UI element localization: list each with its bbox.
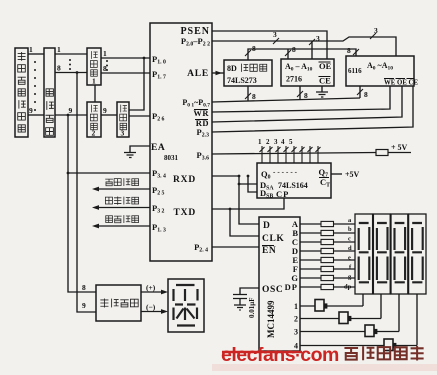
svg-text:74LS273: 74LS273 (227, 76, 257, 85)
junction node on P1.0 line (143, 57, 146, 60)
EPROM U3 2716 box (281, 59, 334, 86)
wire vertical bus to discriminator input 8 (68, 115, 96, 292)
overline WR (194, 109, 208, 111)
shaping circuit box (44, 48, 55, 137)
RAM U4 6116 box (346, 56, 414, 86)
7-segment display DS3 box (391, 214, 408, 294)
wire encoder to shaper bit9 (28, 114, 44, 116)
svg-text:elecfans·com: elecfans·com (221, 344, 339, 366)
direction-discriminator box (96, 285, 141, 321)
svg-text:dp: dp (344, 284, 352, 291)
segment resistors R2-R9 (321, 221, 334, 289)
wire P2.4 to MC14499 EN (212, 246, 259, 248)
wire P2.6 pull-up line over 74LS164 (212, 153, 376, 155)
ellipsis dots encoder-shaper (34, 59, 108, 111)
latch 2 box (87, 102, 101, 137)
wire data stub into 2716 (299, 86, 301, 100)
svg-text:1: 1 (294, 302, 298, 311)
segments DS1 (359, 223, 370, 282)
8D latch chinese chars (242, 64, 267, 72)
wire segment b (300, 232, 355, 234)
transistor Q4 digit4 driver (384, 339, 393, 351)
svg-text:1: 1 (92, 77, 96, 86)
svg-text:1: 1 (258, 138, 262, 146)
svg-text:8: 8 (252, 44, 256, 53)
svg-text:2: 2 (294, 315, 298, 324)
74LS164 output stubs with slashes (260, 146, 321, 163)
period control text (105, 197, 138, 205)
segments DS4 (412, 223, 423, 282)
wire ALE to 74LS273 (212, 72, 224, 74)
MCU U1 8031 box (150, 23, 212, 261)
svg-text:------: ------ (273, 168, 299, 176)
arrowhead period control (92, 205, 99, 210)
svg-text:2: 2 (266, 138, 270, 146)
svg-text:e: e (348, 255, 351, 262)
discriminator text (100, 299, 138, 308)
capacitor C1 0.01uF (233, 295, 247, 311)
svg-text:DP: DP (285, 282, 298, 292)
svg-text:3: 3 (374, 26, 378, 35)
svg-text:8D: 8D (227, 64, 237, 73)
wire MC14499 OSC to capacitor (240, 288, 259, 294)
svg-text:8031: 8031 (164, 154, 179, 162)
wire P0 data bus (212, 98, 360, 102)
junction node DSB tap (247, 175, 250, 178)
encoder box (nine-bit photoelectric encoder) (15, 48, 28, 137)
svg-text:CLK: CLK (262, 234, 284, 244)
7-segment display DS4 box (409, 214, 426, 294)
svg-text:6116: 6116 (348, 67, 362, 75)
svg-text:1: 1 (29, 45, 33, 54)
ellipsis dots shaper-latch1 (69, 59, 71, 61)
wire 2716 CE to ground (321, 86, 323, 92)
ellipsis dots latch1-MCU (106, 60, 108, 62)
wire segment g (300, 277, 355, 279)
svg-text:RXD: RXD (173, 175, 196, 185)
overline WE 6116 (384, 78, 415, 80)
wire clock branch to MC14499 CLK (230, 209, 259, 236)
latch 3 box (117, 102, 129, 137)
wire TXD clock line (212, 198, 284, 209)
speed control text (106, 215, 139, 223)
junction node DSA tap (238, 183, 241, 186)
wire segment c (300, 241, 355, 243)
svg-text:1: 1 (57, 45, 61, 54)
latch U2 74LS273 box (224, 60, 272, 86)
shift register U5 74LS164 box (257, 163, 331, 198)
wire shaper to latch1 bit8 (55, 72, 87, 74)
wire resistor to +5V (388, 152, 411, 154)
overline OE 2716 (319, 61, 331, 63)
svg-text:+ 5V: + 5V (391, 143, 408, 152)
svg-text:(+): (+) (146, 283, 156, 292)
wire tap to MCU P3.4 (68, 172, 150, 174)
overline EN (262, 245, 274, 247)
numbers over 164 outputs (258, 138, 293, 146)
ground below 2716 CE (316, 92, 328, 97)
arrowhead speed control (92, 224, 99, 229)
wire latch1 to MCU P1.0 (101, 57, 150, 59)
svg-text:(−): (−) (146, 303, 156, 312)
encoder text nine-bit photoelectric encoder (18, 52, 26, 132)
wire PSEN to 2716 OE (212, 31, 327, 59)
svg-text:EA: EA (151, 143, 165, 153)
svg-text:3: 3 (273, 30, 277, 39)
junction node on bit9 bus (67, 114, 70, 117)
7-segment display DS2 box (373, 214, 390, 294)
svg-text:3: 3 (121, 129, 125, 138)
7-segment display DS1 box (355, 214, 426, 294)
wire discriminator plus output (141, 291, 163, 293)
svg-text:9: 9 (69, 106, 73, 115)
watermark elecfans.com (221, 344, 339, 366)
sign display segments (174, 285, 198, 326)
svg-text:2: 2 (92, 129, 96, 138)
pull-up resistor R1 (376, 150, 388, 156)
latch1 text (90, 51, 97, 76)
svg-text:b: b (348, 226, 352, 233)
wire 74LS164 Cr to +5V (331, 173, 342, 175)
wire digit 2 (300, 294, 381, 319)
wire RD to 6116 OE (212, 86, 402, 122)
latch3 text (120, 105, 127, 130)
arrowhead minus output (161, 309, 168, 314)
wire latch1 to MCU P1.7 (101, 72, 150, 74)
wire RXD to serial data node (212, 175, 239, 177)
svg-text:0.01μF: 0.01μF (248, 298, 256, 319)
wire P2.3 to 6116 CE (212, 86, 413, 132)
wire digit 1 (300, 294, 363, 306)
svg-text:D: D (263, 221, 270, 231)
bottom pink watermark band (212, 364, 437, 371)
sign display box (168, 279, 204, 332)
wire branch from P1.0 line down to latch3 (129, 58, 144, 110)
wire WR to 6116 WE (212, 86, 390, 112)
svg-text:8: 8 (292, 45, 296, 54)
wire latch2 to latch3 (101, 114, 117, 116)
segments DS2 (377, 223, 388, 282)
wire data stub into 74LS273 (247, 86, 249, 101)
arrowhead angle control (92, 187, 99, 192)
transistor Q3 digit3 driver (365, 325, 374, 337)
svg-text:CP: CP (276, 189, 289, 199)
svg-text:3: 3 (316, 34, 320, 43)
svg-text:d: d (348, 245, 352, 252)
junction node on bit8 bus (76, 71, 79, 74)
svg-text:9: 9 (29, 106, 33, 115)
arrowhead ALE (216, 71, 223, 75)
latch 1 box (87, 48, 101, 85)
wire EA to ground (130, 146, 150, 152)
wire shaper to latch1 bit1 (55, 53, 87, 55)
watermark chinese electronics fans (344, 346, 423, 361)
wire discriminator minus output (141, 311, 163, 313)
svg-text:2716: 2716 (286, 75, 302, 84)
wire branch into 2716 A0-A7 (287, 49, 289, 59)
svg-text:8: 8 (364, 90, 368, 99)
svg-text:8: 8 (57, 64, 61, 73)
svg-text:9: 9 (82, 301, 86, 310)
control arrow angle control (97, 189, 150, 226)
svg-text:5: 5 (289, 138, 293, 146)
shaper text (45, 89, 53, 135)
svg-text:EN: EN (262, 246, 276, 256)
wire latch1 strobe to latch2 (94, 85, 96, 102)
overline RD (195, 119, 208, 121)
svg-text:ALE: ALE (187, 69, 209, 79)
wire digit 4 (300, 294, 417, 346)
svg-text:8: 8 (347, 46, 351, 55)
transistor Q1 digit1 driver (315, 300, 396, 351)
svg-text:4: 4 (281, 138, 285, 146)
wire segment e (300, 259, 355, 261)
svg-text:8: 8 (82, 283, 86, 292)
wire to 74LS164 DSA (239, 183, 257, 185)
latch2 text (90, 105, 97, 130)
angle control text (105, 178, 138, 186)
svg-text:9: 9 (103, 106, 107, 115)
overline Cr (319, 177, 329, 179)
wire segment dp (300, 286, 355, 288)
transistor Q2 digit2 driver (339, 312, 348, 324)
svg-text:c: c (348, 236, 351, 243)
svg-text:TXD: TXD (174, 208, 196, 218)
wire encoder to shaper bit1 (28, 53, 44, 55)
svg-text:8: 8 (304, 91, 308, 100)
svg-text:3: 3 (294, 328, 298, 337)
svg-text:MC14499: MC14499 (266, 300, 276, 338)
svg-text:+5V: +5V (345, 170, 360, 179)
svg-text:1: 1 (103, 49, 107, 58)
display driver U6 MC14499 box (259, 217, 300, 351)
arrowhead plus output (161, 290, 168, 295)
junction node RXD (238, 175, 241, 178)
wire segment f (300, 268, 355, 270)
bus slash marks top (245, 33, 376, 99)
wire P2.0-P2.2 address high bus (212, 37, 396, 56)
watermark strike line (222, 351, 302, 353)
svg-text:WE OE CE: WE OE CE (384, 80, 418, 87)
wire digit 3 (300, 294, 399, 332)
svg-text:OSC: OSC (262, 285, 283, 295)
control arrow speed control (97, 225, 150, 227)
wire data stub into 6116 (359, 86, 361, 98)
wire latch3 to MCU P2.6 (129, 115, 150, 117)
svg-text:3: 3 (274, 138, 278, 146)
svg-text:8: 8 (103, 64, 107, 73)
wire segment d (300, 250, 355, 252)
overline CE 2716 (319, 76, 331, 78)
svg-text:8: 8 (252, 92, 256, 101)
wire serial data vertical to MC14499 D (239, 176, 259, 224)
wire A0-A7 bus from 74LS273 to memories (248, 49, 356, 60)
wire vertical bus to discriminator input 9 (77, 73, 96, 313)
junction node clock tap (229, 208, 232, 211)
wire branch into 2716 A8-A10 (311, 41, 313, 59)
wire to 74LS164 DSB (248, 176, 257, 192)
segments DS3 (395, 223, 406, 282)
ground at EA (124, 153, 136, 158)
control arrow period control (97, 207, 150, 209)
wire segment a (300, 223, 355, 225)
junction node on P3.4 tap (67, 172, 70, 175)
wire shaper to latch2 bit9 (55, 114, 87, 116)
